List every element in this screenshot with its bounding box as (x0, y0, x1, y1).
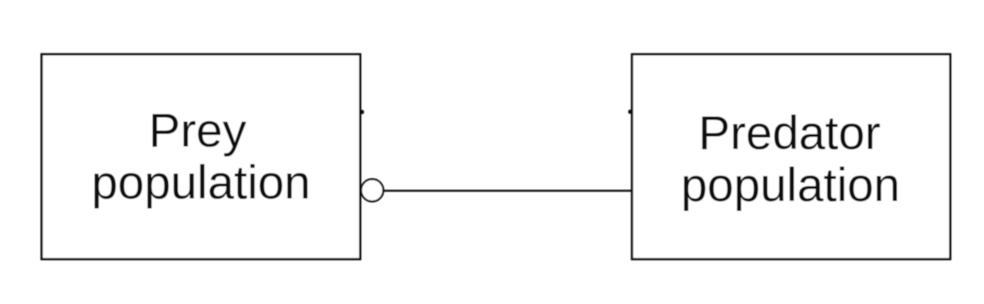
svg-text:population: population (681, 159, 900, 212)
node: circle polarity marker on connector (361, 179, 383, 201)
svg-text:Prey: Prey (149, 104, 247, 157)
node: arrowhead dot on Prey box edge (361, 110, 364, 114)
box: Prey population (42, 54, 361, 259)
svg-text:population: population (91, 156, 310, 209)
svg-text:Predator: Predator (698, 107, 880, 160)
wire: connector from Prey to Predator (384, 190, 632, 192)
node: arrowhead dot on Predator box edge (628, 110, 631, 114)
box: Predator population (632, 54, 950, 259)
